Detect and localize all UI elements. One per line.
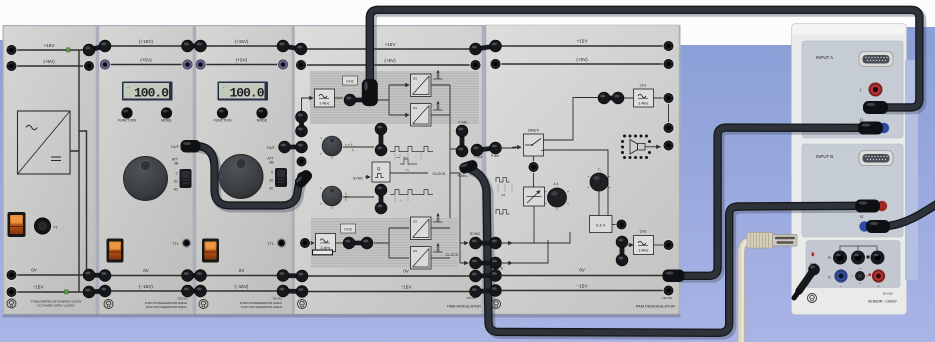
CLOCK bridge [470, 257, 502, 269]
svg-text:736 061: 736 061 [177, 297, 187, 301]
bridging plug +15V modulator to demodulator [470, 40, 502, 55]
svg-text:OUT: OUT [267, 145, 276, 150]
svg-text:R: R [828, 255, 831, 260]
svg-text:20: 20 [174, 180, 178, 184]
lower bridging plug [375, 184, 387, 196]
serial connector [747, 233, 773, 249]
FG2 panel [196, 26, 292, 314]
cable A: modulator CH1 input, over the top, down to CASSY INPUT A [362, 10, 922, 110]
sine generator 1 box [315, 89, 335, 107]
vertical bridging plug PAM1 [456, 125, 468, 157]
bridging plug -15V PS to FG1 [83, 285, 111, 298]
+15V rail [301, 48, 476, 50]
svg-text:STABILISIERTES NETZGERAET ±15V: STABILISIERTES NETZGERAET ±15V/5V [30, 300, 81, 304]
power switch [107, 239, 124, 263]
black plug at CASSY bottom left [794, 264, 820, 298]
0V rail [502, 275, 669, 277]
-15V rail [307, 291, 470, 293]
panel row shadow backing [3, 25, 681, 316]
CH1 output bridging plug [598, 92, 610, 104]
svg-text:+15V: +15V [44, 43, 56, 48]
bridging plug 0V PS to FG1 [83, 269, 111, 281]
right edge sockets [470, 43, 482, 55]
PAM bridge modulator to demodulator [471, 142, 501, 156]
left edge sockets [490, 40, 502, 52]
svg-text:0: 0 [271, 171, 273, 175]
FG1 panel [99, 26, 193, 314]
CH1 gen output bridging plug [344, 94, 376, 106]
cable D: CASSY INPUT B U to right edge [859, 202, 935, 233]
+15V rail [496, 45, 669, 47]
D-sub A [859, 52, 893, 67]
svg-text:3.4kHz: 3.4kHz [320, 102, 330, 106]
sample hold box 1 [411, 74, 432, 97]
svg-text:100.0: 100.0 [229, 86, 264, 101]
svg-text:(+5V): (+5V) [236, 58, 248, 63]
svg-text:736 061: 736 061 [272, 297, 282, 301]
svg-text:(+5V): (+5V) [384, 58, 396, 63]
INPUT B section [802, 144, 903, 237]
svg-text:TTL: TTL [267, 241, 275, 246]
svg-text:0V: 0V [143, 268, 150, 273]
svg-text:3.4kHz: 3.4kHz [639, 249, 649, 253]
bridging plug 0V FG1 to FG2 [182, 270, 207, 282]
beige serial cable [741, 233, 797, 342]
(-15V) rail [105, 290, 188, 292]
socket row 2 [866, 102, 878, 114]
svg-text:TTL: TTL [172, 241, 180, 246]
INPUT A section [802, 41, 903, 138]
svg-text:−15V: −15V [401, 285, 413, 290]
svg-text:P AM⊥: P AM⊥ [458, 174, 469, 178]
svg-text:DC POWER SUPPLY ±15V/5V: DC POWER SUPPLY ±15V/5V [38, 304, 75, 308]
red socket [872, 269, 885, 282]
ground + captions [104, 300, 113, 309]
svg-text:(+15V): (+15V) [139, 39, 153, 44]
svg-text:DS: DS [413, 77, 417, 81]
CH1 hatched band [310, 71, 479, 124]
svg-text:40: 40 [174, 188, 178, 192]
-15V rail [16, 291, 89, 293]
bridging plug -15V modulator to demodulator [470, 285, 502, 298]
bridging plug +15V FG2 to modulator [277, 40, 307, 55]
pulse glyphs CH1 [433, 70, 443, 79]
svg-text:CLOCK: CLOCK [445, 253, 459, 257]
SYNC/CLOCK wiring [502, 232, 570, 263]
pulse glyphs CH2 [433, 213, 443, 222]
svg-text:DS: DS [413, 220, 417, 224]
svg-text:dB: dB [269, 161, 274, 165]
0V rail [105, 275, 188, 277]
CH2 input socket [299, 237, 311, 249]
B sockets [866, 200, 878, 212]
bridging plug +15V FG1 to FG2 [182, 40, 207, 52]
bridging plug -15V FG2 to modulator [277, 285, 308, 297]
sampling knob [322, 186, 342, 206]
svg-text:PAM DEMODULATOR: PAM DEMODULATOR [636, 304, 675, 309]
sample hold box 3 [411, 217, 432, 240]
bridging plug -15V FG1 to FG2 [182, 285, 207, 297]
svg-text:A 1: A 1 [553, 182, 558, 186]
svg-text:CH2: CH2 [640, 230, 647, 234]
S&H box [590, 216, 613, 233]
printed wiring CH2 [310, 242, 314, 244]
(+5V) rail [301, 64, 476, 66]
-15V rail [502, 290, 669, 292]
MODE button [161, 107, 172, 118]
upper bridging plug [375, 123, 387, 135]
svg-text:S: S [828, 275, 831, 280]
svg-text:40: 40 [269, 187, 273, 191]
power supply panel [4, 26, 97, 314]
svg-text:CH1: CH1 [346, 79, 355, 84]
bridging plug +15V PS to FG1 [83, 40, 111, 56]
cable B plug at CASSY (blue ring) [879, 123, 889, 133]
clock waveform glyphs [390, 147, 433, 152]
svg-text:DS: DS [413, 249, 417, 253]
bottom section [806, 241, 900, 288]
svg-text:3.4kHz: 3.4kHz [639, 102, 649, 106]
svg-text:CLOCK: CLOCK [432, 172, 446, 176]
svg-text:FUNKTIONSGENERATOR 200kHz: FUNKTIONSGENERATOR 200kHz [145, 301, 188, 305]
CH2 hatched band [311, 218, 458, 268]
svg-text:524 010: 524 010 [883, 292, 894, 296]
cable B: demodulator 0V out to CASSY INPUT A U [663, 128, 863, 282]
sample hold box 4 [411, 247, 432, 270]
CH2 label box [341, 224, 356, 233]
fuse F1 [34, 218, 50, 234]
svg-text:100.0: 100.0 [134, 86, 169, 101]
FUNCTION button [217, 107, 228, 118]
svg-text:S & H: S & H [596, 224, 606, 228]
ground symbol [7, 299, 16, 308]
FG2 OUT to modulator bridge [279, 141, 308, 153]
svg-text:+15V: +15V [385, 42, 397, 47]
ground + captions [492, 300, 501, 309]
DMUX lower output [534, 150, 609, 216]
frequency knob [124, 157, 168, 201]
power switch [8, 212, 26, 237]
MODE button [256, 107, 267, 118]
PAM demodulator panel [486, 25, 679, 314]
svg-text:F1: F1 [54, 226, 58, 230]
svg-text:FUNCTION: FUNCTION [118, 119, 137, 123]
svg-text:0V: 0V [579, 268, 586, 273]
svg-text:INPUT B: INPUT B [816, 154, 833, 159]
blue socket [834, 269, 847, 282]
AC/DC converter box [18, 111, 71, 174]
svg-text:−15V: −15V [33, 285, 45, 290]
LCD display [218, 82, 269, 101]
(+5V) rail [496, 63, 669, 65]
amplifier box [524, 187, 545, 243]
svg-text:FUNCTION GENERATOR 200kHz: FUNCTION GENERATOR 200kHz [146, 305, 188, 309]
svg-text:P AM: P AM [491, 154, 499, 158]
svg-text:(+5V): (+5V) [576, 57, 588, 62]
ground + captions [298, 300, 307, 309]
right side lit wall [905, 60, 918, 280]
left edge sockets [295, 43, 307, 55]
right edge sockets [663, 40, 675, 52]
cable F plug at CASSY (red ring) [877, 201, 887, 211]
svg-text:DMUX: DMUX [528, 129, 539, 133]
svg-text:CH2: CH2 [344, 227, 353, 232]
D-sub B [859, 151, 893, 166]
svg-text:PAM MODULATOR: PAM MODULATOR [447, 304, 481, 309]
svg-text:0V: 0V [403, 269, 410, 274]
PAM modulator panel [295, 26, 483, 314]
DMUX upper output to CH1 filter [544, 98, 599, 141]
svg-text:4,5: 4,5 [501, 193, 506, 197]
line knob1 to plug column [343, 146, 374, 148]
svg-text:20: 20 [269, 179, 273, 183]
sockets [6, 44, 18, 56]
0V rail [16, 274, 89, 276]
-15V LED [65, 290, 69, 294]
+15V rail [16, 49, 89, 51]
sine generator 2 box [316, 234, 336, 252]
input arrow to DMUX [502, 146, 516, 148]
svg-text:SENSOR - CASSY: SENSOR - CASSY [868, 300, 898, 304]
svg-text:T₁: T₁ [345, 198, 348, 202]
relay bracket [840, 246, 877, 251]
svg-text:736 101: 736 101 [662, 296, 672, 300]
svg-text:MODE: MODE [257, 119, 268, 123]
svg-text:SYNC: SYNC [353, 177, 364, 181]
svg-text:INPUT A: INPUT A [816, 55, 833, 60]
svg-text:(−15V): (−15V) [139, 284, 153, 289]
svg-text:0: 0 [176, 172, 178, 176]
cable A plug at CASSY [863, 101, 888, 114]
FUNCTION button [121, 107, 132, 118]
type label sticker [313, 250, 333, 255]
LED [812, 253, 815, 257]
svg-text:DS: DS [413, 106, 417, 110]
svg-text:(+5V): (+5V) [140, 58, 152, 63]
svg-text:OUT: OUT [171, 144, 180, 149]
CH2 gen output bridging plug [343, 237, 373, 249]
svg-text:CH1: CH1 [640, 84, 647, 88]
svg-text:(+15V): (+15V) [235, 39, 249, 44]
svg-text:FUNCTION: FUNCTION [213, 119, 232, 123]
S&H to CH2 bridging plug [616, 236, 628, 248]
left vertical bridging plug [296, 111, 308, 137]
(+5V) rail [105, 64, 188, 66]
svg-text:SYNC: SYNC [470, 232, 481, 236]
svg-text:(+5V): (+5V) [43, 59, 55, 64]
svg-text:0V: 0V [31, 268, 38, 273]
top row black sockets [833, 251, 885, 265]
svg-text:t₀ = 1: t₀ = 1 [345, 143, 352, 147]
SYNC bridge [470, 237, 502, 249]
cable F: modulator PAM out, down, along bottom, up to CASSY INPUT B [458, 159, 861, 335]
trim knob [855, 271, 865, 281]
frequency knob [219, 155, 263, 199]
svg-text:(−15V): (−15V) [235, 284, 249, 289]
svg-text:FUNKTIONSGENERATOR 200kHz: FUNKTIONSGENERATOR 200kHz [240, 301, 283, 305]
sample hold box 2 [411, 104, 432, 127]
svg-text:T₀: T₀ [598, 168, 602, 172]
svg-text:MODE: MODE [161, 119, 172, 123]
svg-text:0V: 0V [239, 268, 246, 273]
bridging plug 0V modulator to demodulator [470, 270, 502, 282]
cable G: FG1 OUT to modulator input (arc) [181, 140, 315, 208]
S&H outputs to PAM node [431, 85, 461, 258]
printed wiring CH1 [302, 98, 314, 112]
waveform glyphs [496, 178, 510, 183]
svg-text:FUNCTION GENERATOR 200kHz: FUNCTION GENERATOR 200kHz [241, 305, 283, 309]
svg-text:P AM₁: P AM₁ [458, 121, 468, 125]
CH1 label box [343, 76, 358, 85]
power switch [202, 239, 219, 263]
line knob2 to plug column [343, 196, 374, 198]
0V rail [307, 275, 470, 277]
Q clock box [372, 162, 390, 182]
svg-text:dB: dB [174, 162, 179, 166]
internal wiring [70, 50, 87, 292]
sockets [99, 40, 111, 52]
(+15V) rail [105, 45, 188, 47]
speaker block [621, 135, 661, 160]
svg-text:+15V: +15V [577, 39, 589, 44]
modulation frequency knob [322, 136, 342, 156]
+15V LED [67, 48, 71, 52]
LCD display [122, 82, 173, 101]
svg-text:−15V: −15V [577, 284, 589, 289]
bridging plug 0V FG2 to modulator [277, 270, 308, 282]
casing [792, 24, 907, 315]
+5V rail [16, 65, 89, 67]
